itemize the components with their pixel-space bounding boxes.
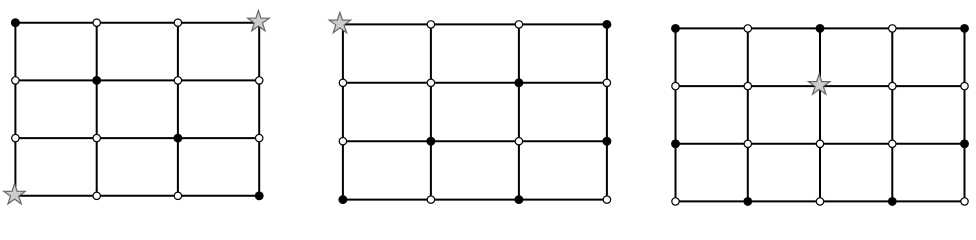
grid1 node r2c0 open circle bbox=[12, 134, 19, 141]
grid2 node r1c1 open circle bbox=[427, 79, 434, 86]
grid3 node r0c2 filled dot bbox=[816, 24, 825, 33]
grid2 horizontal wire row2 bbox=[343, 140, 607, 142]
grid2 node r3c0 filled dot bbox=[338, 195, 347, 204]
grid2 node r1c0 open circle bbox=[339, 79, 346, 86]
grid3 vertical wire col4 bbox=[964, 28, 966, 201]
grid2 horizontal wire row3 bbox=[343, 199, 607, 201]
grid1 node r1c3 open circle bbox=[256, 77, 263, 84]
grid1 node r2c2 filled dot bbox=[173, 134, 182, 143]
grid3 node r3c3 filled dot bbox=[888, 197, 897, 206]
grid3 node r0c3 open circle bbox=[889, 25, 896, 32]
grid3 vertical wire col2 bbox=[819, 28, 821, 201]
grid1 vertical wire col3 bbox=[258, 23, 260, 196]
grid1 node r1c1 filled dot bbox=[92, 76, 101, 85]
grid1 horizontal wire row3 bbox=[15, 195, 259, 197]
grid1 horizontal wire row1 bbox=[15, 79, 259, 81]
grid2 node r2c1 filled dot bbox=[426, 137, 435, 146]
grid3 star marker r1c2 bbox=[808, 74, 830, 94]
grid2 node r1c2 filled dot bbox=[514, 78, 523, 87]
grid2 node r3c2 filled dot bbox=[514, 195, 523, 204]
grid3 node r0c0 filled dot bbox=[671, 24, 680, 33]
grid1 node r1c0 open circle bbox=[12, 77, 19, 84]
grid1 node r1c2 open circle bbox=[174, 77, 181, 84]
grid3 horizontal wire row2 bbox=[676, 143, 965, 145]
grid3 node r0c4 filled dot bbox=[960, 24, 969, 33]
grid1 vertical wire col1 bbox=[96, 23, 98, 196]
grid2 vertical wire col2 bbox=[518, 24, 520, 199]
grid3 vertical wire col0 bbox=[675, 28, 677, 201]
grid1 node r0c1 open circle bbox=[93, 19, 100, 26]
grid3 horizontal wire row0 bbox=[676, 27, 965, 29]
grid1 node r2c1 open circle bbox=[93, 134, 100, 141]
grid2 node r2c0 open circle bbox=[339, 138, 346, 145]
grid3 node r1c1 open circle bbox=[744, 82, 751, 89]
grid2 vertical wire col0 bbox=[342, 24, 344, 199]
grid1 node r3c1 open circle bbox=[93, 192, 100, 199]
grid3 node r3c1 filled dot bbox=[743, 197, 752, 206]
grid1 node r3c3 filled dot bbox=[255, 191, 264, 200]
grid1 horizontal wire row2 bbox=[15, 137, 259, 139]
grid3 node r3c2 open circle bbox=[816, 198, 823, 205]
grid2 vertical wire col3 bbox=[606, 24, 608, 199]
grid3 node r2c0 filled dot bbox=[671, 139, 680, 148]
grid2 horizontal wire row1 bbox=[343, 82, 607, 84]
grid2 node r1c3 open circle bbox=[603, 79, 610, 86]
grid2 node r2c2 open circle bbox=[515, 138, 522, 145]
grid1 vertical wire col0 bbox=[14, 23, 16, 196]
grid3 node r1c3 open circle bbox=[889, 82, 896, 89]
grid2 horizontal wire row0 bbox=[343, 23, 607, 25]
grid3 vertical wire col1 bbox=[747, 28, 749, 201]
grid2 star marker r0c0 bbox=[329, 12, 351, 32]
grid3 node r0c1 open circle bbox=[744, 25, 751, 32]
grid3 horizontal wire row3 bbox=[676, 200, 965, 202]
grid1 node r0c2 open circle bbox=[174, 19, 181, 26]
grid3 node r3c4 open circle bbox=[961, 198, 968, 205]
grid2 node r3c3 open circle bbox=[603, 196, 610, 203]
grid2 node r3c1 open circle bbox=[427, 196, 434, 203]
grid2 node r2c3 filled dot bbox=[602, 137, 611, 146]
grid3 vertical wire col3 bbox=[891, 28, 893, 201]
grid3 node r2c3 open circle bbox=[889, 140, 896, 147]
grid1 node r0c0 filled dot bbox=[11, 18, 20, 27]
grid2 node r0c1 open circle bbox=[427, 21, 434, 28]
grid2 vertical wire col1 bbox=[430, 24, 432, 199]
grid1 star marker r0c3 bbox=[248, 10, 270, 30]
grid1 vertical wire col2 bbox=[177, 23, 179, 196]
grid2 node r0c2 open circle bbox=[515, 21, 522, 28]
grid3 node r1c0 open circle bbox=[672, 82, 679, 89]
grid1 horizontal wire row0 bbox=[15, 22, 259, 24]
grid3 node r1c4 open circle bbox=[961, 82, 968, 89]
grid1 node r2c3 open circle bbox=[256, 134, 263, 141]
grid2 node r0c3 filled dot bbox=[602, 20, 611, 29]
grid3 node r2c1 open circle bbox=[744, 140, 751, 147]
grid3 horizontal wire row1 bbox=[676, 85, 965, 87]
grid1 star marker r3c0 bbox=[4, 184, 26, 204]
grid3 node r3c0 open circle bbox=[672, 198, 679, 205]
grid1 node r3c2 open circle bbox=[174, 192, 181, 199]
grid3 node r2c4 filled dot bbox=[960, 139, 969, 148]
grid3 node r2c2 open circle bbox=[816, 140, 823, 147]
